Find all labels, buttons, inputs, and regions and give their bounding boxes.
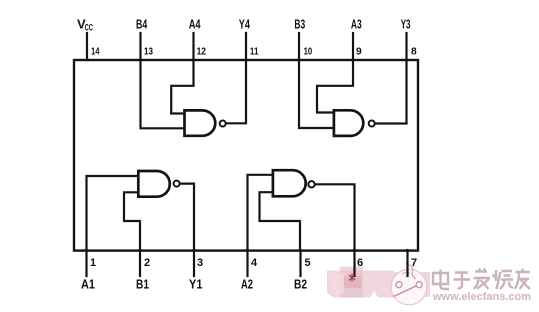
svg-text:9: 9	[356, 46, 362, 57]
svg-text:A4: A4	[189, 17, 201, 32]
svg-text:B2: B2	[294, 276, 307, 291]
svg-text:2: 2	[144, 257, 150, 269]
svg-text:8: 8	[411, 46, 417, 57]
svg-text:CC: CC	[85, 22, 94, 32]
svg-text:14: 14	[91, 46, 100, 57]
svg-text:Y4: Y4	[239, 17, 251, 32]
svg-text:6: 6	[357, 257, 363, 269]
svg-text:12: 12	[197, 46, 207, 57]
svg-text:B3: B3	[294, 17, 305, 32]
svg-text:A2: A2	[241, 276, 253, 291]
svg-text:11: 11	[250, 46, 259, 57]
svg-text:Y3: Y3	[401, 17, 411, 32]
svg-text:5: 5	[305, 257, 311, 269]
svg-text:4: 4	[251, 257, 258, 269]
svg-text:7: 7	[411, 257, 417, 269]
svg-text:3: 3	[197, 257, 203, 269]
svg-text:B1: B1	[136, 276, 149, 291]
svg-text:13: 13	[144, 46, 153, 57]
svg-text:Y1: Y1	[189, 276, 203, 291]
svg-text:1: 1	[90, 257, 96, 269]
svg-text:B4: B4	[136, 17, 148, 32]
svg-text:10: 10	[304, 46, 313, 57]
svg-text:www.elecfans.com: www.elecfans.com	[432, 291, 531, 303]
svg-text:A1: A1	[81, 276, 95, 291]
svg-text:A3: A3	[351, 17, 362, 32]
